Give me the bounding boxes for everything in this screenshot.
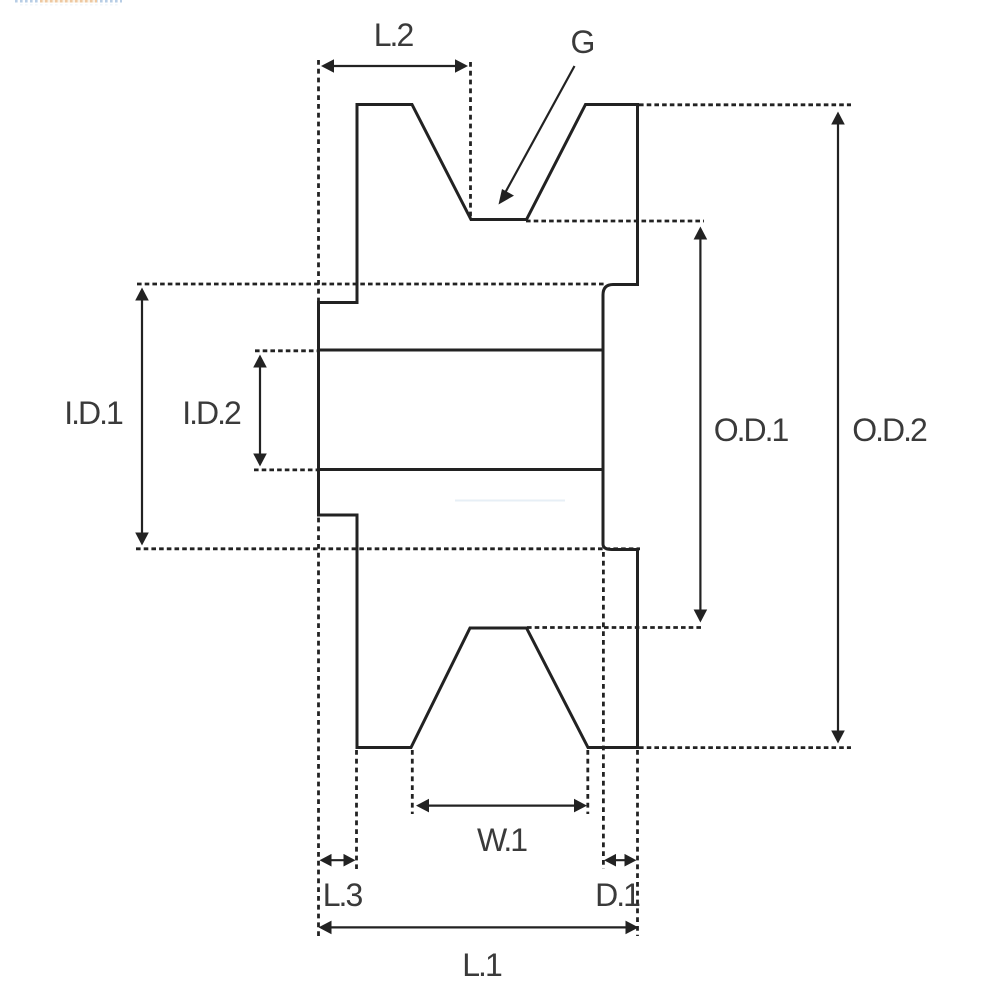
watermark strip top-left: [13, 0, 122, 6]
pulley cross-section outline: [319, 105, 638, 748]
svg-text:L.2: L.2: [374, 17, 414, 53]
svg-text:O.D.1: O.D.1: [714, 412, 789, 448]
arrow D.1: [604, 854, 637, 867]
dashed vertical x=412.3 (W.1 left extension): [411, 750, 414, 814]
bore top line: [319, 349, 604, 352]
dashed horizontal y=627.5 (O.D.1 bottom extension): [527, 626, 704, 629]
dashed horizontal y=548.8 (I.D.1 bottom extension): [136, 547, 640, 550]
svg-text:I.D.2: I.D.2: [182, 395, 241, 431]
dashed horizontal y=221 (O.D.1 top extension): [526, 220, 704, 223]
leader arrow G: [499, 66, 575, 205]
dashed centerline vertical x=318.5 (L.2/L.1 extension): [317, 60, 320, 936]
dashed horizontal y=284 (I.D.1 top extension): [137, 283, 606, 286]
dashed vertical x=603.4 (D.1 left extension): [602, 552, 605, 869]
svg-text:G: G: [571, 24, 594, 60]
svg-text:O.D.2: O.D.2: [852, 412, 927, 448]
faint watermark smudge middle-left: [455, 500, 565, 502]
svg-text:D.1: D.1: [595, 877, 640, 913]
arrow L.3: [320, 854, 356, 867]
arrow W.1: [416, 799, 587, 813]
arrow I.D.2: [253, 355, 267, 467]
dashed vertical x=470.5 (L.2 right extension): [469, 62, 472, 218]
bore bottom line: [319, 468, 604, 471]
dashed horizontal y=104.8 (O.D.2 top extension): [639, 103, 851, 106]
dashed horizontal y=747.6 (O.D.2 bottom extension): [639, 746, 851, 749]
arrow L.1: [319, 921, 639, 935]
svg-text:L.1: L.1: [462, 947, 502, 983]
dashed horizontal y=350.8 (I.D.2 top extension): [255, 349, 319, 352]
svg-text:L.3: L.3: [323, 877, 363, 913]
dashed vertical x=356.5 (L.3 right extension): [355, 750, 358, 869]
dashed vertical x=637.5 (L.1/D.1 right extension): [636, 750, 639, 936]
dashed vertical x=587.8 (W.1 right extension): [586, 750, 589, 814]
arrow I.D.1: [135, 288, 149, 546]
svg-text:I.D.1: I.D.1: [64, 395, 123, 431]
arrow O.D.1: [694, 227, 708, 623]
dashed horizontal y=469.9 (I.D.2 bottom extension): [254, 468, 319, 471]
arrow L.2: [321, 59, 468, 73]
svg-text:W.1: W.1: [477, 822, 527, 858]
arrow O.D.2: [831, 112, 845, 744]
